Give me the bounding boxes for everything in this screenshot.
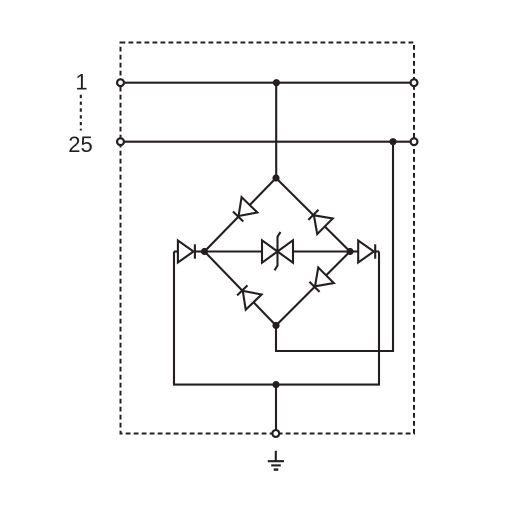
node bridge left [201, 248, 208, 255]
diode V5 left clamp [178, 241, 195, 263]
diode V3 bottom-left edge [234, 283, 261, 310]
dashed ellipsis between labels [80, 95, 82, 131]
node junction on line 25 [389, 138, 396, 145]
wire bottom node to line 25 junction [276, 142, 393, 351]
wire ground bus to earth terminal [275, 385, 277, 431]
node bridge top [272, 174, 279, 181]
wire line 25 bus [124, 141, 411, 143]
wire left clamp anode stub [174, 250, 178, 252]
terminal earth [272, 430, 279, 437]
terminal 25 right [411, 138, 418, 145]
diode V2 top-right edge [306, 207, 333, 234]
svg-text:25: 25 [68, 132, 92, 157]
wire bridge edge bottom-right [276, 252, 350, 326]
terminal 25 left [117, 138, 124, 145]
node junction on line 1 [273, 79, 280, 86]
wire left clamp cathode to left node [195, 250, 205, 252]
wire bridge edge bottom-left [205, 252, 277, 326]
diode V4 bottom-right edge [307, 267, 334, 294]
diode V1 top-left edge [230, 197, 257, 224]
wire line 1 bus [124, 82, 411, 84]
wire right node to right clamp [350, 250, 358, 252]
wire ground loop left-bottom-right [174, 252, 379, 385]
ground symbol [268, 451, 284, 470]
wire bridge edge top-left [205, 178, 277, 252]
wire bridge edge top-right [276, 178, 350, 252]
wire right clamp cathode stub [375, 250, 379, 252]
terminal 1 right [411, 79, 418, 86]
node bridge bottom [272, 322, 279, 329]
node ground bus junction [272, 381, 279, 388]
svg-text:1: 1 [75, 70, 87, 95]
diode V6 right clamp [358, 241, 375, 263]
enclosure dashed border [121, 43, 415, 434]
suppressor diode U1 bidirectional TVS [262, 232, 293, 270]
wire line1 to bridge top [275, 83, 277, 178]
terminal 1 left [117, 79, 124, 86]
wire left node to suppressor [205, 250, 263, 252]
wire suppressor to right node [293, 250, 350, 252]
node bridge right [346, 248, 353, 255]
